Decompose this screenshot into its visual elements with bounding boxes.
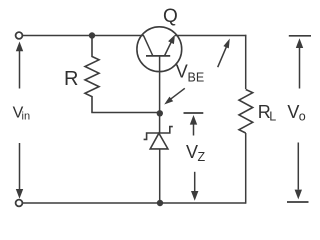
- Vo up arrow: [296, 38, 303, 88]
- VBE arrow down-left to base node: [164, 88, 185, 104]
- wire right branch lower (RL to bottom rail): [245, 133, 247, 204]
- wire zener anode to bottom rail: [159, 149, 161, 203]
- svg-text:BE: BE: [188, 70, 205, 84]
- svg-text:o: o: [299, 109, 306, 123]
- wire right branch upper (down to RL): [245, 35, 247, 89]
- Vo reference bar bottom: [287, 201, 309, 203]
- VZ reference bar top: [184, 112, 204, 114]
- Vo reference bar top: [289, 35, 311, 37]
- transistor Q circle: [137, 27, 182, 72]
- VBE arrow up to emitter wire: [218, 39, 230, 68]
- terminal bottom-left: [16, 200, 23, 207]
- svg-text:in: in: [22, 111, 31, 123]
- VZ up arrow: [190, 115, 197, 136]
- wire R bottom to base node: [91, 112, 160, 114]
- svg-text:Q: Q: [163, 6, 178, 27]
- zener diode cathode bar with bent ends: [144, 127, 173, 140]
- Vin down arrow: [16, 143, 23, 199]
- svg-text:Z: Z: [198, 150, 206, 164]
- transistor Q base bar: [146, 55, 170, 57]
- svg-text:V: V: [287, 102, 299, 122]
- resistor R: [85, 38, 99, 113]
- VZ down arrow: [191, 172, 198, 201]
- resistor RL: [239, 90, 253, 134]
- wire bottom rail: [23, 202, 246, 204]
- svg-text:V: V: [176, 61, 188, 81]
- wire top right (emitter to load branch): [175, 35, 246, 37]
- wire top left (input to transistor collector): [23, 35, 144, 37]
- svg-text:R: R: [64, 68, 78, 90]
- zener diode anode triangle: [150, 133, 168, 149]
- transistor Q emitter lead with arrow: [164, 35, 175, 56]
- svg-text:V: V: [186, 142, 198, 162]
- wire base lead down to zener: [159, 56, 161, 133]
- svg-text:L: L: [269, 110, 276, 124]
- transistor Q collector lead: [144, 36, 153, 56]
- node junction above R: [89, 32, 95, 38]
- Vo down arrow: [295, 143, 302, 200]
- Vin up arrow: [16, 42, 23, 89]
- input terminal top-left: [16, 32, 23, 39]
- node base junction: [157, 110, 163, 116]
- node bottom junction: [157, 200, 163, 206]
